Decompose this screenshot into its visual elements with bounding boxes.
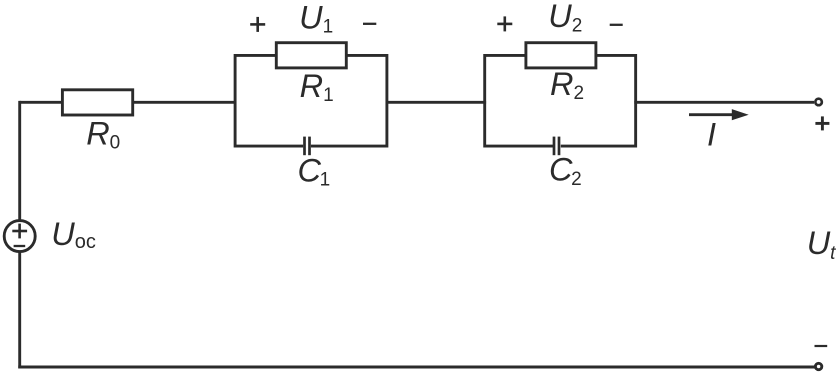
svg-text:R1: R1	[300, 68, 334, 106]
svg-text:C2: C2	[549, 152, 582, 190]
svg-text:U1: U1	[299, 0, 333, 38]
svg-text:U2: U2	[548, 0, 582, 36]
svg-text:Uoc: Uoc	[51, 216, 96, 253]
svg-text:I: I	[707, 116, 716, 152]
svg-text:R0: R0	[86, 116, 120, 154]
svg-text:R2: R2	[550, 66, 584, 104]
svg-text:Ut: Ut	[807, 225, 836, 264]
svg-text:C1: C1	[298, 152, 331, 190]
